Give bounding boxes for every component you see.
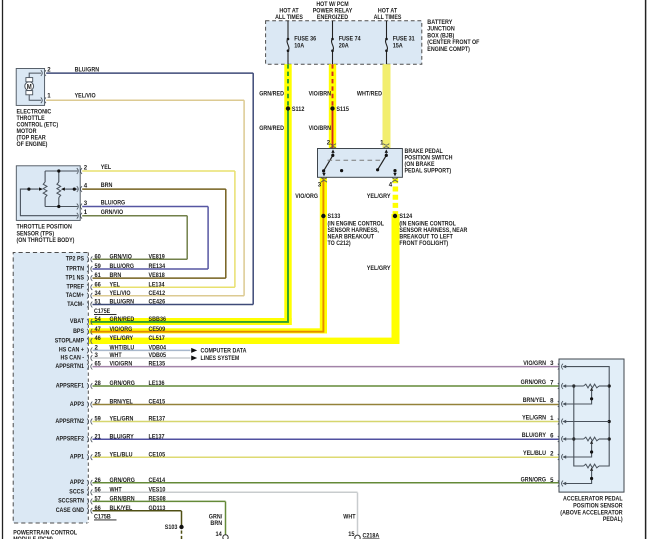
svg-text:47: 47 — [95, 326, 102, 333]
computer data arrow (HS CAN -) — [191, 356, 197, 361]
PCM pin 21 APPSREF2 (BLU/GRY LE137) — [87, 436, 89, 442]
svg-text:CE426: CE426 — [149, 299, 166, 306]
PCM pin 47 BPS (VIO/ORG CE509) — [87, 329, 89, 335]
TPS wiper to pin 4 — [61, 187, 65, 190]
left page border — [2, 0, 4, 539]
svg-text:51: 51 — [95, 299, 102, 306]
svg-text:VE818: VE818 — [149, 272, 166, 279]
brake pedal position switch box — [318, 149, 403, 178]
wire YEL/VIO (motor pin 1) — [46, 99, 244, 101]
pedal pot 1 (upper) — [564, 385, 584, 387]
throttle position sensor box — [16, 166, 80, 221]
PCM pin 66 CASE GND (BLK/YEL GD113) — [87, 508, 89, 514]
pedal right rail (pin 3) — [564, 367, 610, 466]
TPS pin 2 connector — [77, 168, 79, 174]
svg-text:SCCSRTN: SCCSRTN — [58, 498, 84, 505]
connector pin 14 — [223, 535, 228, 539]
motor pin 2 connector — [41, 70, 43, 76]
battery junction box (BJB) — [266, 21, 422, 64]
svg-text:CE105: CE105 — [149, 451, 166, 458]
splice S133 — [321, 214, 325, 218]
svg-text:RES08: RES08 — [149, 496, 167, 503]
pedal pin 1 connector — [562, 419, 564, 425]
svg-text:TP1 NS: TP1 NS — [66, 274, 85, 281]
svg-text:GRN/RED: GRN/RED — [110, 316, 135, 323]
svg-text:LE136: LE136 — [149, 380, 165, 387]
svg-text:RE135: RE135 — [149, 361, 166, 368]
PCM connector bracket dashed line — [87, 253, 89, 524]
svg-text:8: 8 — [550, 398, 554, 405]
svg-text:APP3: APP3 — [70, 401, 85, 408]
svg-text:2: 2 — [95, 345, 99, 352]
riser YEL (TPS pin 2 to PCM 66) — [234, 171, 236, 287]
svg-text:YEL/GRY: YEL/GRY — [367, 193, 391, 200]
svg-text:BLU/ORG: BLU/ORG — [101, 200, 126, 207]
switch right blade (pin 1, open) — [378, 155, 387, 169]
svg-text:ENGINE COMPT): ENGINE COMPT) — [427, 46, 470, 53]
PCM pin 28 APPSREF1 (GRN/ORG LE136) — [87, 383, 89, 389]
pedal pin 2 connector — [562, 454, 564, 460]
svg-text:54: 54 — [95, 316, 102, 323]
switch pin 4 contact — [393, 169, 396, 172]
switch arrow pin 1 — [385, 149, 388, 153]
svg-text:CE415: CE415 — [149, 399, 166, 406]
svg-text:YEL/GRY: YEL/GRY — [367, 265, 391, 272]
svg-text:2: 2 — [327, 140, 331, 147]
PCM pin 2 HS CAN + (WHT/BLU VDB04) — [87, 348, 89, 354]
svg-text:65: 65 — [95, 361, 102, 368]
svg-text:57: 57 — [95, 496, 102, 503]
svg-text:34: 34 — [95, 290, 102, 297]
svg-text:WHT: WHT — [343, 514, 355, 521]
svg-text:APP1: APP1 — [70, 454, 85, 461]
fuse FUSE 74 (20A) — [332, 21, 334, 39]
svg-text:GRN/ORG: GRN/ORG — [110, 380, 135, 387]
PCM pin 3 HS CAN - (WHT VDB05) — [87, 355, 89, 361]
pedal pin 1 wire — [564, 421, 610, 423]
svg-text:YEL: YEL — [110, 281, 121, 288]
svg-text:TPRTN: TPRTN — [66, 265, 84, 272]
svg-text:YEL/GRY: YEL/GRY — [110, 335, 134, 342]
electronic throttle control motor box — [16, 69, 44, 106]
svg-text:GRN/ORG: GRN/ORG — [521, 379, 546, 386]
svg-text:VIO/GRN: VIO/GRN — [110, 361, 133, 368]
wire GRN/BRN drop to pin 14 — [225, 502, 227, 535]
svg-text:WHT/RED: WHT/RED — [357, 91, 382, 98]
pedal pin 5 connector — [562, 481, 564, 487]
svg-text:S103: S103 — [165, 524, 178, 531]
pedal pot 2 (middle) — [564, 438, 584, 440]
pedal pin 6 connector — [562, 436, 564, 442]
connector C218A pin 15 — [355, 535, 360, 539]
svg-text:VIO/GRN: VIO/GRN — [523, 360, 546, 367]
svg-text:TPREF: TPREF — [67, 284, 85, 291]
PCM pin 66 TPREF (YEL LE134) — [87, 284, 89, 290]
svg-text:BLU/GRY: BLU/GRY — [522, 432, 547, 439]
PCM pin 46 STOPLAMP (YEL/GRY CL517) — [87, 338, 89, 344]
switch pin 4 connector — [392, 178, 398, 180]
svg-text:GRN/BRN: GRN/BRN — [110, 496, 135, 503]
svg-text:SCCS: SCCS — [69, 489, 84, 496]
svg-text:GRN/VIO: GRN/VIO — [101, 209, 123, 216]
svg-text:66: 66 — [95, 281, 102, 288]
switch arrow pin 2 — [331, 149, 334, 153]
TPS pin 1 connector — [77, 213, 79, 219]
svg-text:BLU/GRY: BLU/GRY — [110, 433, 135, 440]
svg-text:GRN/RED: GRN/RED — [259, 125, 284, 132]
svg-text:21: 21 — [95, 433, 102, 440]
wire BRN (TPS pin 4) — [82, 188, 226, 190]
PCM pin 59 APPSRTN2 (YEL/GRN RE137) — [87, 419, 89, 425]
svg-text:YEL/BLU: YEL/BLU — [110, 451, 133, 458]
svg-text:ENERGIZED: ENERGIZED — [317, 14, 349, 21]
svg-text:61: 61 — [95, 272, 102, 279]
svg-text:3: 3 — [95, 352, 99, 359]
switch arrow pin 3 — [322, 173, 325, 177]
svg-text:VES10: VES10 — [149, 486, 166, 493]
wire YEL (TPS pin 2) — [82, 170, 235, 172]
TPS supply rail (pin 2) — [45, 170, 78, 172]
svg-text:ALL TIMES: ALL TIMES — [374, 14, 402, 21]
pedal pot 1 wiper to pin 8 — [590, 387, 593, 391]
svg-text:APPSRTN1: APPSRTN1 — [55, 363, 84, 370]
splice S112 — [286, 106, 290, 110]
svg-text:VDB05: VDB05 — [149, 352, 167, 359]
svg-text:LE137: LE137 — [149, 433, 165, 440]
wire BLK/YEL drop to S103 — [181, 511, 183, 527]
pedal pot 3 (lower) — [584, 464, 599, 468]
svg-text:CE509: CE509 — [149, 326, 166, 333]
svg-text:C218A: C218A — [363, 532, 380, 539]
svg-text:APPSREF2: APPSREF2 — [56, 436, 85, 443]
riser BLU/GRN (motor pin 2 to PCM 51) — [252, 73, 254, 304]
svg-text:BRN: BRN — [210, 520, 222, 527]
svg-text:TACM-: TACM- — [67, 301, 84, 308]
svg-text:RE134: RE134 — [149, 263, 166, 270]
svg-text:5: 5 — [550, 477, 554, 484]
svg-text:VBAT: VBAT — [70, 318, 84, 325]
svg-text:SBB36: SBB36 — [149, 316, 167, 323]
svg-text:WHT: WHT — [110, 352, 122, 359]
wire VIO/BRN red centre dashed segment — [332, 64, 334, 108]
PCM pin 27 APP3 (BRN/YEL CE415) — [87, 402, 89, 408]
svg-text:WHT: WHT — [110, 486, 122, 493]
svg-text:3: 3 — [550, 360, 554, 367]
svg-text:STOPLAMP: STOPLAMP — [55, 337, 84, 344]
svg-text:YEL/GRN: YEL/GRN — [110, 416, 134, 423]
svg-text:APPSREF1: APPSREF1 — [56, 382, 85, 389]
svg-text:GRN/ORG: GRN/ORG — [110, 477, 135, 484]
switch spare contact — [340, 169, 343, 172]
pedal pot 3 wiper to pin 5 — [590, 467, 593, 471]
svg-text:4: 4 — [84, 182, 88, 189]
riser BLU/ORG (TPS pin 3 to PCM 59) — [207, 207, 209, 270]
svg-text:OF ENGINE): OF ENGINE) — [17, 141, 48, 148]
PCM pin 56 SCCS (WHT VES10) — [87, 489, 89, 495]
TPS return rail (pin 3) — [45, 206, 78, 208]
svg-text:3: 3 — [318, 182, 322, 189]
svg-text:BLU/ORG: BLU/ORG — [110, 263, 135, 270]
wire VIO/ORG highlight (switch pin 3 to PCM BPS) — [320, 178, 327, 334]
svg-text:VIO/BRN: VIO/BRN — [309, 125, 332, 132]
svg-text:CL517: CL517 — [149, 335, 166, 342]
svg-text:GD113: GD113 — [149, 505, 166, 512]
PCM pin 57 SCCSRTN (GRN/BRN RES08) — [87, 499, 89, 505]
TPS pin 4 connector — [77, 186, 79, 192]
switch pin 2 connector — [330, 147, 336, 149]
svg-text:BPS: BPS — [73, 328, 84, 335]
svg-text:HS CAN -: HS CAN - — [61, 354, 85, 361]
svg-text:4: 4 — [389, 182, 393, 189]
svg-text:26: 26 — [95, 477, 102, 484]
PCM pin 60 TP2 PS (GRN/VIO VE819) — [87, 256, 89, 262]
splice S124 — [393, 214, 397, 218]
svg-text:FRONT FOGLIGHT): FRONT FOGLIGHT) — [399, 240, 448, 247]
wire GRN/VIO (TPS pin 1) — [82, 215, 187, 217]
svg-text:YEL: YEL — [101, 164, 112, 171]
svg-text:59: 59 — [95, 263, 102, 270]
switch pin 3 connector — [321, 178, 327, 180]
motor pin 1 connector — [41, 97, 43, 103]
svg-text:BRN: BRN — [110, 272, 122, 279]
svg-text:APP2: APP2 — [70, 479, 85, 486]
ETC motor symbol — [25, 82, 34, 91]
fuse FUSE 36 (10A) — [287, 21, 289, 39]
svg-text:7: 7 — [550, 380, 554, 387]
svg-text:PEDAL SUPPORT): PEDAL SUPPORT) — [405, 168, 452, 175]
fuse FUSE 31 (15A) — [386, 21, 388, 39]
svg-text:GRN/RED: GRN/RED — [259, 91, 284, 98]
accelerator pedal position sensor box — [559, 359, 624, 492]
splice S115 — [330, 106, 334, 110]
PCM pin 65 APPSRTN1 (VIO/GRN RE135) — [87, 364, 89, 370]
riser YEL/VIO (motor pin 1 to PCM 34) — [243, 100, 245, 295]
svg-text:GRN/ORG: GRN/ORG — [521, 477, 546, 484]
svg-text:LINES SYSTEM: LINES SYSTEM — [201, 355, 240, 362]
wire WHT/RED (fuse 31 to brake switch) — [383, 64, 391, 148]
wire WHT drop to C218A pin 15 — [357, 493, 359, 536]
svg-text:CASE GND: CASE GND — [56, 507, 85, 514]
svg-text:1: 1 — [47, 92, 51, 99]
svg-text:TP2 PS: TP2 PS — [66, 256, 84, 263]
svg-text:BRN: BRN — [101, 182, 113, 189]
svg-text:BLU/GRN: BLU/GRN — [110, 299, 135, 306]
PCM pin 34 TACM+ (YEL/VIO CE412) — [87, 293, 89, 299]
right page border — [645, 0, 647, 539]
svg-text:BLU/GRN: BLU/GRN — [75, 66, 100, 73]
splice S103 — [179, 525, 183, 529]
svg-text:15: 15 — [348, 531, 355, 538]
PCM pin 54 VBAT (GRN/RED SBB36) — [87, 319, 89, 325]
svg-text:APPSRTN2: APPSRTN2 — [55, 418, 84, 425]
svg-text:BRN/YEL: BRN/YEL — [523, 397, 546, 404]
svg-text:YEL/BLU: YEL/BLU — [523, 450, 546, 457]
svg-text:HS CAN +: HS CAN + — [59, 347, 84, 354]
switch left blade (pins 2-3 closed) — [324, 155, 333, 171]
svg-text:6: 6 — [550, 433, 554, 440]
svg-text:VIO/ORG: VIO/ORG — [110, 326, 133, 333]
TPS pin 3 connector — [77, 204, 79, 210]
TPS track resistor left — [43, 182, 47, 198]
riser GRN/VIO (TPS pin 1 to PCM 60) — [186, 216, 188, 260]
PCM pin 61 TP1 NS (BRN VE818) — [87, 275, 89, 281]
svg-text:M: M — [27, 84, 32, 91]
PCM pin 25 APP1 (YEL/BLU CE105) — [87, 454, 89, 460]
svg-text:20A: 20A — [339, 42, 349, 49]
svg-text:YEL/GRN: YEL/GRN — [522, 415, 546, 422]
wire BLU/ORG (TPS pin 3) — [82, 206, 208, 208]
svg-text:WHT/BLU: WHT/BLU — [110, 345, 135, 352]
wire GRN/RED highlight (fuse 36 to PCM VBAT) — [284, 64, 291, 325]
svg-text:CE414: CE414 — [149, 477, 166, 484]
powertrain control module (PCM) box — [13, 253, 87, 524]
switch arrow pin 4 — [393, 173, 396, 177]
wire VIO/ORG orange centre — [91, 178, 323, 332]
svg-text:2: 2 — [550, 451, 554, 458]
svg-text:14: 14 — [216, 531, 223, 538]
svg-text:10A: 10A — [294, 42, 304, 49]
svg-text:VE819: VE819 — [149, 253, 166, 260]
wire GRN/RED green centre solid segment — [91, 109, 288, 322]
wire YEL/GRY solid (S124 down and left to PCM STOPLAMP) — [392, 214, 400, 344]
wire VIO/BRN red centre solid segment — [332, 109, 334, 149]
svg-text:YEL/VIO: YEL/VIO — [110, 290, 131, 297]
wire YEL/GRY dashed highlight (switch pin 4 to S124) — [393, 178, 399, 214]
wire BLK/YEL stub below S103 — [181, 531, 183, 539]
svg-text:S112: S112 — [292, 106, 305, 113]
wire GRN/RED green centre dashed segment — [287, 64, 289, 108]
pedal pot 2 wiper to pin 2 — [590, 440, 593, 444]
svg-text:CE412: CE412 — [149, 290, 166, 297]
svg-text:YEL/VIO: YEL/VIO — [75, 93, 96, 100]
svg-text:COMPUTER DATA: COMPUTER DATA — [201, 347, 247, 354]
svg-text:GRN/VIO: GRN/VIO — [110, 253, 132, 260]
svg-text:25: 25 — [95, 451, 102, 458]
svg-text:S115: S115 — [336, 106, 349, 113]
PCM pin 26 APP2 (GRN/ORG CE414) — [87, 480, 89, 486]
svg-text:60: 60 — [95, 253, 102, 260]
switch mechanical link (dashed) — [328, 159, 382, 161]
svg-text:TO C212): TO C212) — [328, 240, 351, 247]
riser BRN (TPS pin 4 to PCM 61) — [225, 189, 227, 278]
switch pin 1 connector — [383, 147, 389, 149]
TPS wiper to pin 1 — [39, 187, 43, 190]
svg-text:46: 46 — [95, 335, 102, 342]
svg-text:66: 66 — [95, 505, 102, 512]
svg-text:BRN/YEL: BRN/YEL — [110, 399, 133, 406]
wire VIO/BRN highlight (fuse 74 to brake switch) — [329, 64, 336, 148]
svg-text:LE134: LE134 — [149, 281, 165, 288]
TPS track resistor right — [57, 182, 61, 198]
svg-text:VIO/ORG: VIO/ORG — [295, 193, 318, 200]
svg-text:28: 28 — [95, 380, 102, 387]
PCM pin 51 TACM- (BLU/GRN CE426) — [87, 302, 89, 308]
svg-text:1: 1 — [380, 140, 384, 147]
svg-text:(ON THROTTLE BODY): (ON THROTTLE BODY) — [17, 237, 75, 244]
computer data arrow (HS CAN +) — [191, 348, 197, 353]
svg-text:TACM+: TACM+ — [66, 292, 84, 299]
pedal pin 7 connector — [562, 383, 564, 389]
svg-text:VIO/BRN: VIO/BRN — [309, 91, 332, 98]
svg-text:PEDAL): PEDAL) — [603, 516, 623, 523]
pedal pin 8 connector — [562, 401, 564, 407]
svg-text:RE137: RE137 — [149, 416, 166, 423]
svg-text:27: 27 — [95, 399, 102, 406]
pedal left rail — [608, 0, 610, 1]
svg-text:BLK/YEL: BLK/YEL — [110, 505, 133, 512]
wire BLU/GRN (motor pin 2) — [46, 72, 253, 74]
svg-text:56: 56 — [95, 486, 102, 493]
svg-text:S124: S124 — [399, 213, 412, 220]
pedal pin 3 connector — [562, 364, 564, 370]
svg-text:ALL TIMES: ALL TIMES — [275, 14, 303, 21]
svg-text:59: 59 — [95, 416, 102, 423]
svg-text:VDB04: VDB04 — [149, 345, 167, 352]
svg-text:15A: 15A — [393, 42, 403, 49]
PCM pin 59 TPRTN (BLU/ORG RE134) — [87, 266, 89, 272]
svg-text:S133: S133 — [328, 213, 341, 220]
svg-text:1: 1 — [550, 415, 554, 422]
